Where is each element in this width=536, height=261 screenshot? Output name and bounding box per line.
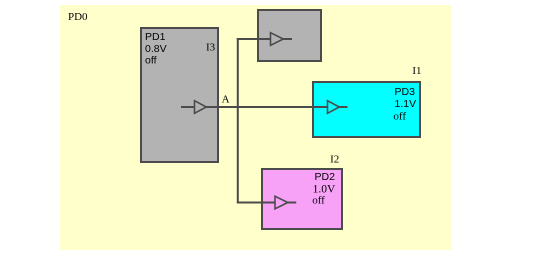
svg-text:off: off: [312, 195, 325, 207]
buffer in PD3: [328, 101, 340, 114]
wire PD1 buffer input: [181, 106, 194, 108]
svg-text:1.0V: 1.0V: [313, 183, 336, 195]
block PD1: [141, 28, 218, 162]
svg-text:1.1V: 1.1V: [395, 98, 417, 110]
label PD2 value block: [312, 171, 336, 207]
svg-text:I2: I2: [330, 154, 339, 166]
wire top buffer output: [283, 38, 292, 40]
svg-text:I3: I3: [206, 42, 216, 54]
svg-text:off: off: [145, 55, 157, 67]
wire vertical trunk: [237, 38, 239, 203]
svg-text:I1: I1: [412, 65, 421, 77]
buffer in PD2: [275, 196, 288, 209]
power domain PD0: [60, 5, 451, 250]
svg-text:A: A: [222, 94, 230, 106]
svg-text:0.8V: 0.8V: [145, 43, 167, 55]
label PD3 value block: [393, 86, 416, 123]
svg-text:off: off: [393, 111, 406, 123]
wire bottom branch horizontal: [237, 202, 275, 204]
svg-text:PD0: PD0: [68, 11, 88, 23]
svg-text:PD3: PD3: [395, 86, 416, 98]
wire node A horizontal: [206, 106, 327, 108]
label PD1 value block: [145, 31, 167, 67]
block PD2: [262, 169, 342, 229]
block PD3: [313, 82, 420, 137]
svg-text:PD2: PD2: [315, 171, 336, 183]
buffer in top block: [271, 33, 284, 46]
buffer in PD1: [195, 101, 207, 114]
svg-text:PD1: PD1: [145, 31, 166, 43]
wire top branch horizontal: [237, 38, 270, 40]
block top (unnamed): [258, 10, 321, 61]
wire PD3 buffer output: [339, 106, 347, 108]
wire PD2 buffer output: [288, 202, 296, 204]
